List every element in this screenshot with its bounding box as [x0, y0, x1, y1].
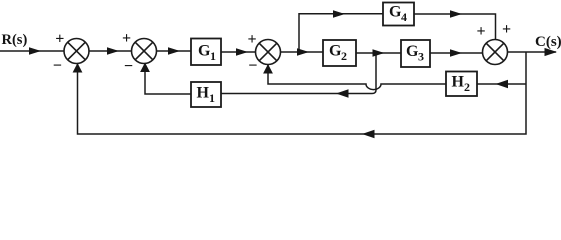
arrow on G4 branch before G4: [333, 10, 345, 18]
wire S3 to G2 (through takeoff node A): [280, 51, 323, 53]
arrow on S2-G1 wire: [168, 47, 180, 55]
svg-text:−: −: [53, 58, 62, 75]
svg-text:3: 3: [418, 50, 424, 64]
wire H1 output to S2 bottom: [145, 64, 191, 94]
block G3: [401, 40, 430, 67]
arrow on H1 feed wire: [336, 89, 349, 98]
arrowheads (flow direction markers): [29, 10, 557, 138]
wire G4 to S4 top: [414, 14, 496, 40]
wire H2 output to S3 bottom with hop over node B drop: [268, 65, 446, 90]
summer S3: [256, 40, 281, 65]
svg-text:−: −: [124, 58, 133, 75]
arrow on G2-G3 wire: [373, 49, 385, 57]
arrow on G3-S4 wire: [450, 49, 462, 57]
arrow on S1-S2 wire: [107, 47, 119, 55]
svg-text:2: 2: [464, 80, 470, 94]
arrow on H2 input wire: [496, 80, 509, 89]
summer S4: [483, 40, 508, 65]
block G1: [191, 39, 221, 66]
block G4: [383, 3, 414, 26]
block H2: [446, 72, 477, 97]
node B takeoff drop to H1 feed line: [221, 53, 376, 94]
arrow on outer feedback bottom wire: [362, 130, 375, 139]
arrow into S1: [29, 47, 41, 55]
wire S1 to S2: [89, 50, 132, 52]
summer S1: [64, 39, 89, 64]
arrow into S1 bottom (outer feedback): [73, 63, 83, 73]
svg-text:+: +: [248, 31, 257, 48]
svg-text:4: 4: [401, 10, 407, 24]
svg-text:+: +: [502, 21, 511, 38]
block G2: [323, 40, 356, 66]
svg-text:+: +: [55, 31, 64, 48]
svg-text:−: −: [248, 58, 257, 75]
wire input R(s) to summer S1: [0, 50, 64, 52]
svg-text:H: H: [197, 85, 210, 102]
wire G2 to G3 (through takeoff node B): [356, 52, 401, 54]
node A takeoff riser to G4 branch: [299, 14, 383, 52]
node C drop to outer feedback: [78, 52, 527, 134]
arrow on S3-G2 wire: [297, 48, 309, 56]
arrow on G1-S3 wire: [236, 48, 248, 56]
arrow on output wire: [545, 48, 558, 56]
wire G3 to S4: [430, 52, 483, 54]
block H1: [191, 82, 221, 107]
arrow after G4: [450, 10, 462, 18]
svg-text:1: 1: [209, 91, 215, 105]
svg-text:R(s): R(s): [2, 32, 28, 48]
summer S2: [132, 39, 157, 64]
svg-text:H: H: [452, 74, 465, 91]
wire S4 to output C(s) (through takeoff node C): [507, 51, 556, 53]
svg-text:+: +: [122, 30, 131, 47]
svg-text:2: 2: [341, 49, 347, 63]
svg-text:C(s): C(s): [535, 34, 561, 50]
wire G1 to S3: [221, 51, 256, 53]
wire S2 to G1: [156, 50, 191, 52]
arrow into S2 bottom (H1 feedback): [140, 63, 150, 73]
wire H2 input from node C: [477, 83, 526, 85]
svg-text:1: 1: [210, 49, 216, 63]
svg-text:+: +: [477, 23, 486, 40]
arrow into S3 bottom (H2 feedback): [263, 64, 273, 74]
